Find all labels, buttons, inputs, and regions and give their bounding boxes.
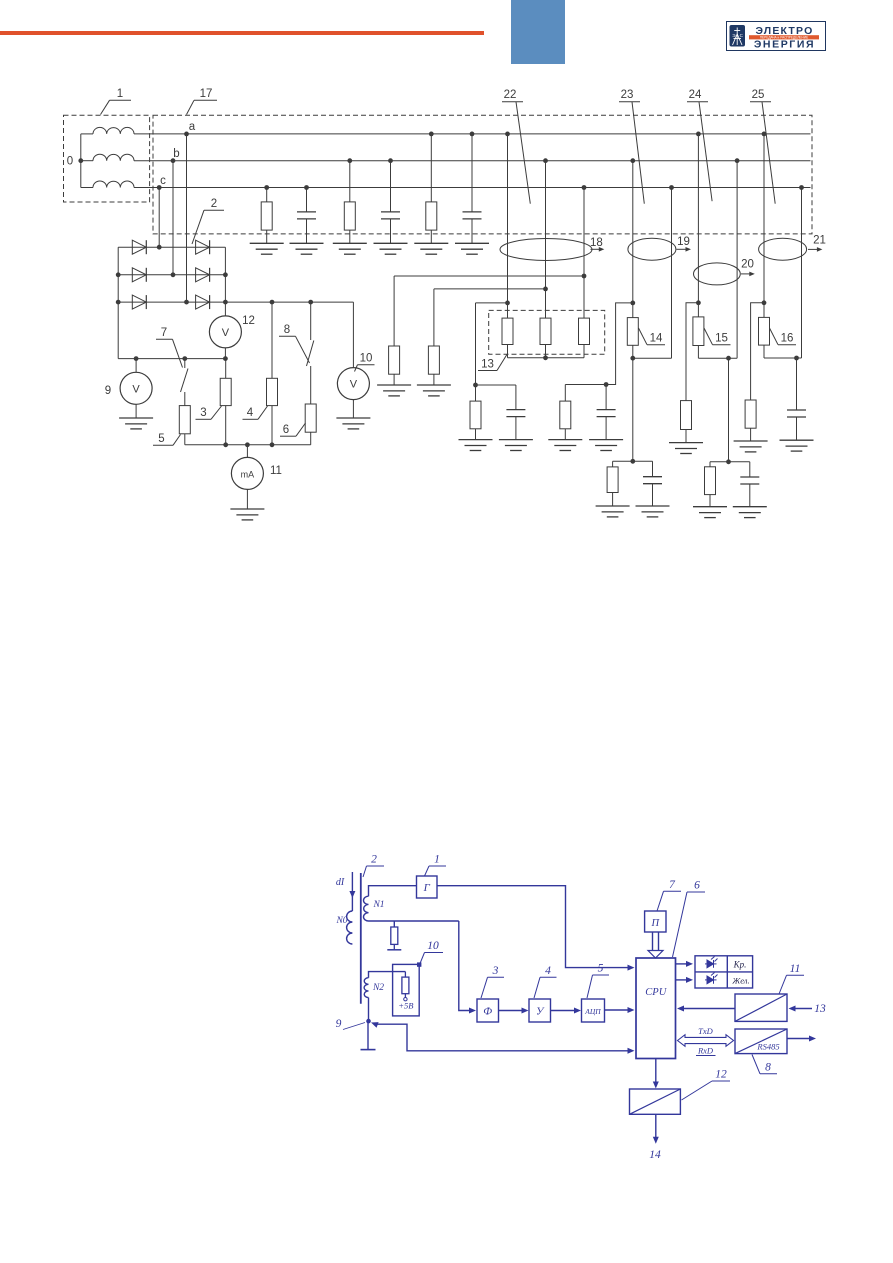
watchdog box P: [645, 911, 666, 932]
capacitor CT20 lower: [749, 462, 751, 477]
wire CT18 phase b drop: [543, 158, 548, 163]
logo ElektroEnergia: [726, 21, 826, 51]
svg-text:dI: dI: [336, 877, 345, 888]
svg-text:V: V: [222, 327, 230, 339]
resistor CT20 lower: [709, 462, 711, 467]
ground under filter capacitor C c-phase: [290, 242, 324, 244]
svg-text:11: 11: [790, 963, 801, 975]
filter resistor R c-phase: [264, 185, 269, 190]
current transformer ellipse 19: [628, 238, 676, 260]
ADC box: [582, 999, 605, 1022]
wire CT21 bypass: [751, 303, 764, 400]
resistor R6: [310, 366, 312, 404]
wire tap a to bridge: [184, 132, 189, 137]
node 0 neutral: [78, 158, 83, 163]
svg-text:2: 2: [211, 198, 217, 210]
wire F to U: [499, 1010, 527, 1012]
svg-text:TxD: TxD: [698, 1026, 714, 1036]
wire N1 to filter: [459, 921, 474, 1011]
arrow dI primary current: [351, 872, 353, 895]
wire box11 to CPU: [679, 1008, 735, 1010]
box 10 power supply: [393, 964, 420, 1016]
svg-text:1: 1: [434, 854, 440, 866]
svg-text:Кр.: Кр.: [733, 960, 747, 970]
svg-text:RxD: RxD: [697, 1046, 714, 1056]
svg-text:5: 5: [158, 433, 164, 445]
wire RS485 out: [787, 1038, 814, 1040]
wire tap b to bridge: [171, 158, 176, 163]
svg-text:9: 9: [105, 385, 111, 397]
resistor R16: [759, 317, 770, 345]
wire CT19 lower drop: [632, 358, 634, 461]
LED red symbol: [705, 957, 718, 968]
ground under CT20 bypass resistor: [669, 442, 703, 444]
wire ADC to CPU: [605, 1009, 633, 1011]
diode VD1: [132, 240, 146, 254]
svg-text:6: 6: [283, 424, 289, 436]
TxD RxD double arrow: [678, 1035, 734, 1047]
resistor Rc: [475, 385, 477, 401]
svg-text:Г: Г: [423, 882, 431, 894]
ground under Rc: [459, 439, 493, 441]
svg-text:N1: N1: [372, 900, 384, 910]
svg-text:П: П: [651, 918, 661, 929]
RS485 box 8: [735, 1029, 787, 1054]
resistor CT19 lower: [612, 461, 614, 467]
svg-text:18: 18: [590, 237, 603, 249]
svg-text:21: 21: [813, 234, 826, 246]
svg-text:c: c: [160, 175, 166, 187]
wire CT20 lower drop: [728, 358, 730, 462]
ground under CT19 lower capacitor: [636, 505, 670, 507]
svg-text:8: 8: [284, 324, 290, 336]
svg-text:N0: N0: [335, 916, 347, 926]
header blue block: [511, 0, 565, 64]
optocoupler box 11: [735, 994, 787, 1021]
svg-text:22: 22: [504, 89, 517, 101]
ground under V9: [135, 404, 137, 418]
winding N2: [369, 972, 406, 978]
ground under filter resistor R a-phase: [414, 242, 448, 244]
capacitor CT19 lower: [652, 461, 654, 476]
wire CT21 line2 from bus c: [799, 185, 804, 190]
filter resistor R a-phase: [429, 132, 434, 137]
resistor R13b: [540, 318, 551, 344]
svg-text:V: V: [350, 379, 358, 391]
milliammeter mA11: [246, 445, 248, 458]
wire feedback CPU to node 9: [370, 1020, 379, 1028]
diode VD6: [196, 295, 210, 309]
ground under filter capacitor C a-phase: [455, 242, 489, 244]
wire R15 to line2: [698, 357, 737, 359]
wire CT21 line1 from bus a: [762, 132, 767, 137]
CPU box: [636, 958, 676, 1059]
svg-text:N2: N2: [372, 983, 384, 993]
current transformer ellipse 21: [759, 238, 807, 260]
header orange rule: [0, 31, 484, 35]
arrow output 14: [655, 1114, 657, 1141]
svg-text:АЦП: АЦП: [584, 1007, 601, 1016]
svg-text:Ф: Ф: [483, 1006, 492, 1018]
switch S8: [310, 302, 312, 340]
wire CPU to box 12: [655, 1059, 657, 1086]
wire bottom return: [185, 444, 311, 446]
resistor R3: [225, 359, 227, 379]
svg-text:7: 7: [669, 879, 676, 891]
resistor CT21 bypass: [745, 400, 756, 428]
svg-text:16: 16: [781, 333, 794, 345]
wire positive rail to V10: [225, 301, 353, 303]
voltmeter V12: [209, 316, 241, 348]
ground under Rb: [417, 384, 451, 386]
svg-text:13: 13: [814, 1003, 826, 1015]
svg-text:4: 4: [545, 965, 551, 977]
wire to RC group c: [476, 302, 508, 304]
LED yellow symbol: [705, 973, 718, 984]
svg-text:19: 19: [677, 236, 690, 248]
filter capacitor C a-phase: [470, 132, 475, 137]
current transformer ellipse 18: [500, 239, 592, 261]
wire to R group b: [434, 288, 546, 290]
wire CT20 line1 from bus a: [696, 132, 701, 137]
node 9 junction: [366, 1019, 371, 1024]
svg-text:12: 12: [242, 315, 255, 327]
resistor R5: [184, 392, 186, 406]
wire CT18 phase c drop: [582, 185, 587, 190]
resistor R14: [627, 318, 638, 346]
ground under Cc: [499, 439, 533, 441]
ground under V10: [352, 400, 354, 418]
ground under filter resistor R b-phase: [333, 242, 367, 244]
svg-text:13: 13: [481, 359, 494, 371]
bus b wire: [134, 160, 811, 162]
svg-text:3: 3: [200, 407, 206, 419]
output box 12: [630, 1089, 681, 1114]
svg-text:CPU: CPU: [645, 987, 667, 998]
resistor on N1: [393, 921, 395, 927]
voltmeter V9: [135, 359, 137, 373]
svg-text:+5В: +5В: [398, 1001, 413, 1011]
ground under CT21 bypass resistor: [734, 440, 768, 442]
svg-text:a: a: [189, 121, 196, 133]
capacitor Cc: [515, 385, 517, 410]
svg-text:25: 25: [752, 89, 765, 101]
double arrow P to CPU: [652, 932, 654, 951]
dashed box 13: [489, 310, 605, 354]
wire CT20 bypass: [686, 303, 698, 401]
dashed box 17 bus enclosure: [153, 115, 812, 234]
voltmeter V10: [352, 302, 354, 368]
wire CPU to LED red: [676, 963, 691, 965]
transformer T winding c: [81, 187, 93, 189]
transformer T winding b: [81, 160, 93, 162]
wire CPU to LED yellow: [676, 979, 691, 981]
wire CT20 line2 from bus b: [735, 158, 740, 163]
transformer T winding a: [81, 133, 93, 135]
resistor R4: [271, 302, 273, 378]
diode VD4: [196, 240, 210, 254]
ground under CT19 bypass resistor: [548, 439, 582, 441]
wire CT19 bypass: [565, 303, 633, 385]
ground under CT19 lower resistor: [596, 505, 630, 507]
svg-text:17: 17: [200, 88, 213, 100]
ground under CT19 bypass capacitor: [589, 439, 623, 441]
svg-text:14: 14: [650, 333, 663, 345]
svg-text:V: V: [132, 383, 140, 395]
wire CT19 line2 from bus c: [669, 185, 674, 190]
resistor CT19 bypass: [564, 385, 566, 402]
wire U to ADC: [551, 1010, 579, 1012]
filter capacitor C b-phase: [388, 158, 393, 163]
rectifier bridge rails: [117, 247, 119, 358]
svg-text:Жел.: Жел.: [731, 976, 749, 986]
filter box F: [477, 999, 499, 1022]
wire CT18 phase a drop: [505, 132, 510, 137]
svg-text:15: 15: [715, 333, 728, 345]
svg-text:3: 3: [492, 965, 499, 977]
wire to R group a: [394, 275, 584, 277]
svg-text:b: b: [173, 148, 179, 160]
capacitor CT21: [796, 358, 798, 410]
svg-text:7: 7: [161, 327, 167, 339]
diode VD2: [132, 268, 146, 282]
svg-text:4: 4: [247, 407, 254, 419]
diode VD5: [196, 268, 210, 282]
svg-text:6: 6: [694, 880, 700, 892]
switch S7: [184, 359, 186, 368]
wire R16 to line2: [764, 357, 802, 359]
svg-text:10: 10: [427, 940, 439, 952]
bus a wire: [134, 133, 811, 135]
winding N0: [351, 895, 353, 911]
svg-text:8: 8: [765, 1062, 771, 1074]
svg-text:mA: mA: [241, 469, 255, 479]
transformer neutral line: [80, 134, 82, 188]
resistor Rb: [428, 346, 439, 374]
wire tap c to bridge: [157, 185, 162, 190]
svg-text:23: 23: [621, 89, 634, 101]
bus c wire: [134, 187, 811, 189]
resistor R13c: [579, 318, 590, 344]
wire negative rail horizontal: [118, 358, 225, 360]
svg-text:14: 14: [649, 1149, 661, 1161]
winding N1: [369, 886, 417, 897]
filter capacitor C c-phase: [304, 185, 309, 190]
svg-text:24: 24: [689, 89, 702, 101]
wire under box 13: [508, 357, 585, 359]
wire CT19 line1 from bus b: [630, 158, 635, 163]
wire G to CPU: [437, 886, 632, 968]
wire input 13 to box11: [791, 1008, 813, 1010]
wire R14 to line2: [633, 357, 672, 359]
transformer core: [360, 873, 362, 1004]
filter resistor R b-phase: [347, 158, 352, 163]
ground under CT20 lower capacitor: [733, 506, 767, 508]
ground under Ra: [377, 384, 411, 386]
ground at N2: [367, 1021, 369, 1049]
dashed box 1 transformer enclosure: [64, 115, 150, 202]
svg-text:5: 5: [598, 963, 604, 975]
generator box G: [417, 876, 438, 898]
amplifier box U: [529, 999, 551, 1022]
svg-text:10: 10: [360, 353, 373, 365]
ground under N1 resistor: [387, 949, 401, 951]
current transformer ellipse 20: [694, 263, 741, 285]
ground under filter resistor R c-phase: [250, 242, 284, 244]
svg-text:2: 2: [371, 854, 377, 866]
resistor R15: [693, 317, 704, 346]
ground under CT20 lower resistor: [693, 506, 727, 508]
capacitor CT19 bypass: [605, 385, 607, 410]
resistor in box 10: [402, 977, 409, 994]
svg-text:RS485: RS485: [756, 1042, 779, 1052]
svg-text:0: 0: [67, 156, 73, 168]
ground under CT21 capacitor: [780, 439, 814, 441]
resistor CT20 bypass: [681, 401, 692, 430]
ground under filter capacitor C b-phase: [374, 242, 408, 244]
svg-text:12: 12: [715, 1069, 727, 1081]
LED indicator block: [695, 956, 753, 988]
svg-text:9: 9: [336, 1018, 342, 1030]
resistor Ra: [389, 346, 400, 374]
ground under mA: [246, 489, 248, 509]
svg-text:20: 20: [741, 259, 754, 271]
diode VD3: [132, 295, 146, 309]
svg-text:1: 1: [117, 88, 123, 100]
svg-text:11: 11: [270, 465, 282, 477]
resistor R13a: [502, 318, 513, 344]
